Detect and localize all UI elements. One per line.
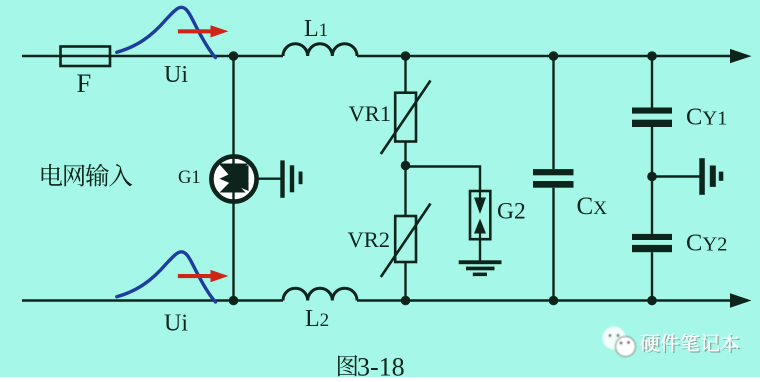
svg-text:CY2: CY2 <box>686 230 727 257</box>
svg-text:VR1: VR1 <box>349 101 392 126</box>
svg-text:CY1: CY1 <box>686 103 727 130</box>
svg-text:L1: L1 <box>304 16 328 42</box>
svg-text:CX: CX <box>577 193 608 220</box>
svg-text:Ui: Ui <box>164 62 188 88</box>
svg-text:G1: G1 <box>178 168 201 188</box>
svg-text:3-18: 3-18 <box>357 353 405 378</box>
svg-text:Ui: Ui <box>164 311 188 337</box>
svg-text:F: F <box>77 68 92 98</box>
svg-text:G2: G2 <box>497 199 526 225</box>
svg-text:L2: L2 <box>305 306 329 332</box>
svg-text:VR2: VR2 <box>348 227 391 252</box>
